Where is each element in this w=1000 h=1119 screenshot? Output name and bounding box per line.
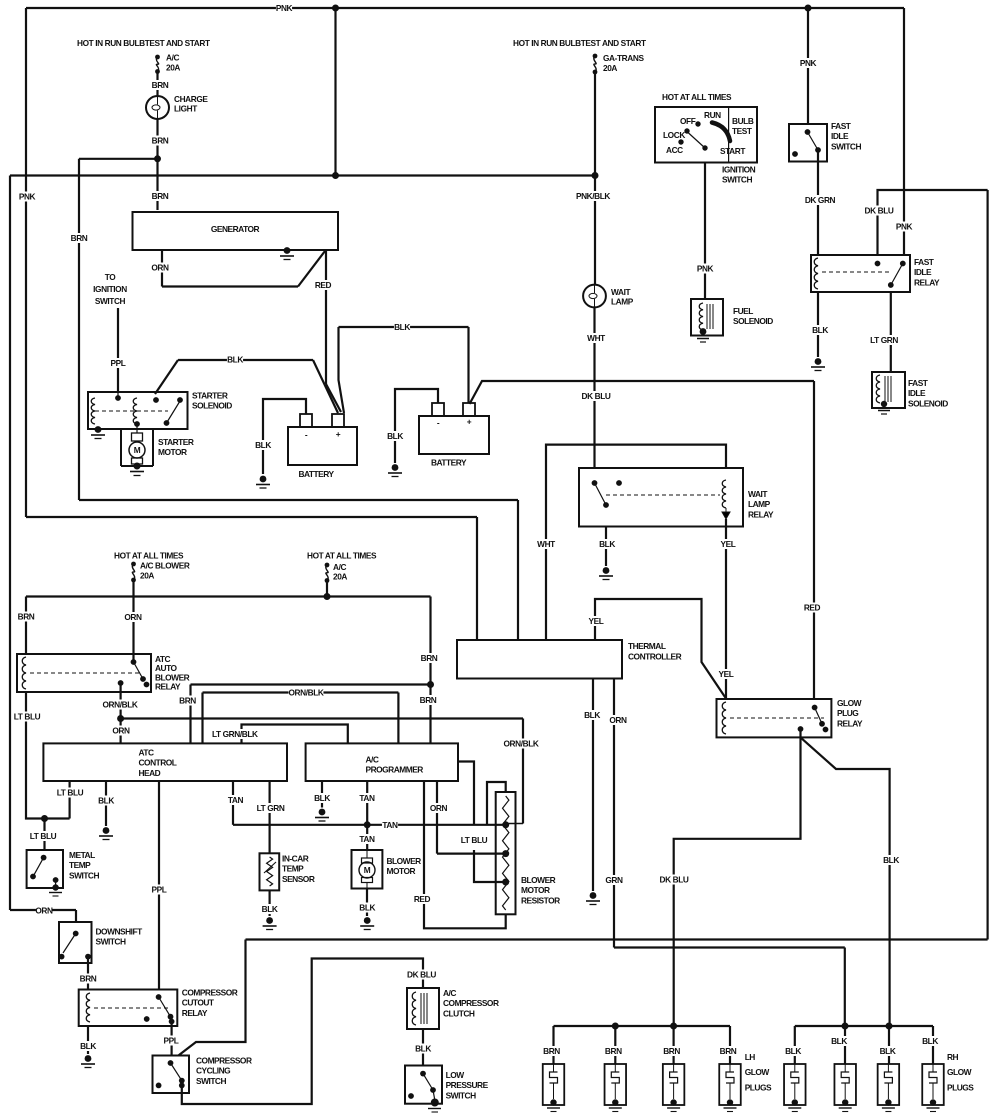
label ORN into control head bbox=[112, 726, 130, 736]
label BLK RH glow plug 4 bbox=[922, 1036, 938, 1046]
svg-text:WHT: WHT bbox=[587, 333, 605, 343]
label DK BLU compressor clutch bbox=[406, 970, 436, 980]
label YEL at glow plug relay bbox=[718, 669, 734, 679]
pin DK BLU contact fast idle relay bbox=[875, 261, 881, 267]
label ORN ATC relay feed bbox=[124, 612, 142, 622]
junction resistor tap 1 bbox=[502, 821, 509, 828]
label START bbox=[720, 146, 745, 156]
fuse A/C 20A lower bbox=[325, 563, 330, 583]
svg-text:BLK: BLK bbox=[359, 903, 375, 913]
pin ORN contact ATC relay bbox=[131, 659, 137, 665]
wire ORN/BLK down to blower resistor bbox=[522, 719, 524, 824]
svg-text:SWITCH: SWITCH bbox=[196, 1076, 226, 1086]
wire BLK to RH glow plug 2 bbox=[844, 1026, 846, 1064]
divider ignition switch bbox=[728, 107, 730, 163]
svg-text:SWITCH: SWITCH bbox=[722, 174, 752, 184]
svg-text:WHT: WHT bbox=[537, 539, 555, 549]
motor BLOWER MOTOR box bbox=[352, 850, 383, 889]
pin cycling switch spare bbox=[156, 1083, 162, 1089]
svg-text:20A: 20A bbox=[333, 572, 347, 582]
pin output contact glow plug relay bbox=[798, 726, 804, 732]
svg-text:ORN: ORN bbox=[430, 803, 448, 813]
wire LT BLU to metal temp switch bbox=[43, 819, 45, 851]
wire PNK/BLK fuse to wait lamp bbox=[594, 72, 596, 285]
label FAST IDLE SOLENOID bbox=[908, 378, 948, 408]
wire BLK wait lamp relay output ground bbox=[605, 527, 607, 567]
label RH GLOW PLUGS bbox=[947, 1052, 974, 1092]
wire BRN to LH glow plug bbox=[729, 1026, 731, 1064]
svg-text:BLK: BLK bbox=[98, 796, 114, 806]
switch COMPRESSOR CYCLING SWITCH box bbox=[153, 1056, 190, 1094]
wire RED programmer to resistor bottom bbox=[424, 781, 506, 928]
svg-text:RED: RED bbox=[804, 603, 821, 613]
wire BRN to LH glow plug bbox=[614, 1026, 616, 1064]
label RED generator output bbox=[315, 280, 332, 290]
label A/C COMPRESSOR CLUTCH bbox=[443, 988, 499, 1018]
pin low pressure switch arm end bbox=[430, 1087, 436, 1093]
svg-text:HOT AT ALL TIMES: HOT AT ALL TIMES bbox=[662, 92, 732, 102]
svg-text:BLK: BLK bbox=[80, 1041, 96, 1051]
wire YEL wait lamp relay to glow plug relay bbox=[725, 519, 727, 699]
wire PPL head to compressor cutout relay bbox=[158, 781, 160, 990]
coil fuel solenoid bbox=[699, 303, 703, 330]
wire TAN programmer to blower motor bbox=[366, 781, 368, 850]
label BRN control head bbox=[179, 696, 196, 706]
ground wait lamp relay output bbox=[599, 567, 613, 579]
label BLOWER MOTOR bbox=[387, 856, 422, 876]
svg-text:SWITCH: SWITCH bbox=[69, 870, 99, 880]
switch arm wait lamp relay bbox=[595, 483, 607, 505]
svg-text:SWITCH: SWITCH bbox=[831, 141, 861, 151]
pin arm contact glow plug relay bbox=[819, 721, 825, 727]
svg-text:RED: RED bbox=[315, 280, 332, 290]
label BLK RH glow plug 1 bbox=[785, 1046, 801, 1056]
svg-text:BRN: BRN bbox=[152, 80, 169, 90]
ground fast idle solenoid bbox=[878, 401, 890, 414]
svg-text:IDLE: IDLE bbox=[908, 388, 926, 398]
svg-text:PPL: PPL bbox=[164, 1036, 179, 1046]
wire BRN fuse to charge light bbox=[156, 72, 158, 97]
label TO IGNITION SWITCH bbox=[93, 272, 127, 306]
svg-text:BULB: BULB bbox=[732, 116, 754, 126]
label LT GRN bbox=[255, 803, 285, 813]
wire BRN left rail down bbox=[78, 159, 80, 500]
label DOWNSHIFT SWITCH bbox=[96, 927, 144, 947]
label BRN programmer feed upper bbox=[421, 653, 438, 663]
wire ORN left rail to downshift switch bbox=[10, 909, 76, 911]
wire GRN drop to RH glow plug bus bbox=[844, 948, 846, 1027]
svg-text:BRN: BRN bbox=[420, 695, 437, 705]
svg-text:ORN: ORN bbox=[35, 906, 53, 916]
ground in-car sensor bbox=[263, 917, 277, 929]
wire ORN fuse to ATC relay bbox=[132, 580, 134, 662]
pin cycling switch output bbox=[179, 1083, 185, 1089]
switch arm cutout relay bbox=[159, 997, 171, 1017]
pin PPL contact cutout relay bbox=[156, 994, 162, 1000]
svg-text:RESISTOR: RESISTOR bbox=[521, 895, 560, 905]
label fuse A/C BLOWER 20A bbox=[140, 561, 190, 581]
fuse A/C BLOWER 20A bbox=[131, 562, 136, 583]
relay WAIT LAMP RELAY box bbox=[579, 468, 743, 527]
label fuse A/C 20A bbox=[166, 53, 180, 73]
label BRN below charge light bbox=[152, 136, 169, 146]
wire TAN from head bbox=[232, 781, 234, 825]
label COMPRESSOR CUTOUT RELAY bbox=[182, 988, 238, 1018]
wire BLK to RH glow plug 4 bbox=[932, 1026, 934, 1064]
label OFF bbox=[680, 116, 696, 126]
element in-car temp sensor thermistor bbox=[267, 857, 273, 886]
wire LT BLU from head bbox=[68, 781, 70, 819]
wire BRN to AC programmer bbox=[429, 597, 431, 744]
label ATC CONTROL HEAD bbox=[139, 748, 177, 778]
label DK BLU LH glow plug feed bbox=[659, 875, 689, 885]
label LH GLOW PLUGS bbox=[745, 1052, 772, 1092]
svg-text:TO: TO bbox=[105, 272, 117, 282]
svg-text:GRN: GRN bbox=[605, 875, 623, 885]
sensor IN-CAR TEMP SENSOR box bbox=[260, 853, 280, 890]
wire ORN/GRN thermal controller to glow plugs bbox=[613, 679, 615, 948]
svg-text:BLK: BLK bbox=[255, 440, 271, 450]
svg-text:ORN: ORN bbox=[151, 263, 169, 273]
label ORN/BLK resistor feed bbox=[504, 739, 539, 749]
wire BLK to RH glow plug 3 bbox=[888, 1026, 890, 1064]
label ACC bbox=[666, 145, 683, 155]
wire fuse to y596 bus bbox=[326, 581, 328, 597]
svg-text:MOTOR: MOTOR bbox=[158, 447, 187, 457]
svg-text:GA-TRANS: GA-TRANS bbox=[603, 53, 644, 63]
svg-text:ATC: ATC bbox=[139, 748, 155, 758]
wire YEL thermal controller to glow plug relay bbox=[595, 599, 726, 699]
junction RH bus GRN feed bbox=[842, 1023, 849, 1030]
relay STARTER SOLENOID box bbox=[88, 392, 188, 429]
glow plug RH 2 bbox=[834, 1064, 856, 1105]
svg-text:PNK: PNK bbox=[697, 264, 714, 274]
indicator WAIT LAMP bbox=[583, 285, 606, 308]
pin OFF contact bbox=[695, 121, 700, 126]
wire BLK glow plug relay to RH glow plugs bbox=[801, 737, 890, 1026]
label FAST IDLE RELAY bbox=[914, 257, 940, 287]
svg-text:BLK: BLK bbox=[584, 710, 600, 720]
svg-text:LT BLU: LT BLU bbox=[461, 835, 488, 845]
label BRN programmer feed lower bbox=[420, 695, 437, 705]
ground blower motor bbox=[360, 917, 374, 929]
label WHT wait lamp bbox=[587, 333, 605, 343]
coil wait lamp relay bbox=[722, 480, 726, 508]
wire PNK into thermal controller bbox=[476, 517, 478, 640]
label ORN/BLK ATC relay output bbox=[103, 700, 138, 710]
coil starter solenoid pull-in bbox=[91, 398, 95, 424]
switch METAL TEMP SWITCH box bbox=[27, 850, 63, 888]
svg-text:RELAY: RELAY bbox=[155, 682, 181, 692]
svg-text:BRN: BRN bbox=[80, 974, 97, 984]
switch arm ignition bbox=[688, 133, 705, 149]
wire BLK diagonal into battery positive bbox=[313, 360, 338, 413]
pin switch contact lower bbox=[164, 420, 170, 426]
svg-text:COMPRESSOR: COMPRESSOR bbox=[443, 998, 499, 1008]
junction RH bus BLK feed bbox=[886, 1023, 893, 1030]
svg-text:HOT IN RUN BULBTEST AND START: HOT IN RUN BULBTEST AND START bbox=[77, 38, 210, 48]
svg-text:YEL: YEL bbox=[721, 539, 736, 549]
svg-text:COMPRESSOR: COMPRESSOR bbox=[182, 988, 238, 998]
label ORN/BLK head-programmer bbox=[289, 688, 324, 698]
wire low pressure switch to ground bbox=[433, 1090, 435, 1100]
svg-text:METAL: METAL bbox=[69, 850, 95, 860]
label ORN programmer output bbox=[430, 803, 448, 813]
svg-text:TEMP: TEMP bbox=[69, 860, 91, 870]
label BLK blower motor bbox=[359, 903, 375, 913]
svg-text:PNK/BLK: PNK/BLK bbox=[576, 191, 610, 201]
svg-text:BRN: BRN bbox=[720, 1046, 737, 1056]
glow plug LH 4 bbox=[719, 1064, 741, 1105]
svg-text:RH: RH bbox=[947, 1052, 959, 1062]
label CHARGE LIGHT bbox=[174, 94, 208, 114]
wire left rail x10 down to ORN bbox=[9, 176, 11, 911]
svg-text:STARTER: STARTER bbox=[192, 391, 228, 401]
label PPL cycling switch bbox=[163, 1036, 179, 1046]
battery BATTERY 2 bbox=[419, 416, 489, 454]
wire RED down to glow plug relay bbox=[813, 381, 815, 699]
ground fuel solenoid bbox=[697, 328, 709, 342]
wire LT GRN relay to fast idle solenoid bbox=[890, 292, 892, 372]
label PNK right bbox=[896, 222, 913, 232]
label BRN LH glow plug bbox=[543, 1046, 560, 1056]
coil fast idle relay bbox=[814, 258, 818, 289]
pin output contact wait lamp relay bbox=[603, 502, 609, 508]
switch arm starter solenoid bbox=[167, 401, 181, 423]
svg-text:LT GRN: LT GRN bbox=[257, 803, 285, 813]
svg-text:BLK: BLK bbox=[227, 355, 243, 365]
glow plug RH 4 bbox=[922, 1064, 944, 1105]
svg-text:BLK: BLK bbox=[314, 793, 330, 803]
svg-text:SWITCH: SWITCH bbox=[95, 296, 126, 306]
svg-text:IDLE: IDLE bbox=[831, 131, 849, 141]
wire BRN to LH glow plug bbox=[672, 1026, 674, 1064]
element blower motor resistor bbox=[503, 796, 509, 910]
svg-text:SWITCH: SWITCH bbox=[446, 1090, 476, 1100]
label BRN left rail bbox=[71, 233, 88, 243]
wire LT BLU lower segment to resistor tap bbox=[474, 850, 506, 882]
svg-text:LT BLU: LT BLU bbox=[30, 831, 57, 841]
svg-text:SOLENOID: SOLENOID bbox=[733, 316, 773, 326]
svg-text:BRN: BRN bbox=[543, 1046, 560, 1056]
label BRN LH glow plug bbox=[720, 1046, 737, 1056]
junction starter motor ground bbox=[134, 463, 141, 470]
wire ORN programmer down bbox=[436, 781, 438, 854]
coil glow plug relay bbox=[722, 702, 726, 734]
label BATTERY 1 bbox=[298, 469, 334, 479]
svg-text:WAIT: WAIT bbox=[748, 489, 768, 499]
switch arm fast idle relay bbox=[891, 264, 903, 286]
label BLK starter wire bbox=[227, 355, 243, 365]
switch arm low pressure switch bbox=[423, 1074, 433, 1090]
svg-text:PLUG: PLUG bbox=[837, 708, 858, 718]
pin RED contact glow plug relay bbox=[812, 705, 818, 711]
svg-text:PLUGS: PLUGS bbox=[745, 1082, 772, 1092]
coil compressor cutout relay bbox=[86, 993, 90, 1022]
pin lower contact ATC relay bbox=[144, 682, 150, 688]
svg-text:RUN: RUN bbox=[704, 110, 721, 120]
wire BRN fuse bus y596 bbox=[26, 595, 431, 597]
ground battery2 negative bbox=[388, 464, 402, 476]
relay ATC AUTO BLOWER RELAY box bbox=[17, 654, 151, 692]
svg-text:IN-CAR: IN-CAR bbox=[282, 854, 309, 864]
ground battery1 negative bbox=[256, 476, 270, 488]
svg-text:STARTER: STARTER bbox=[158, 437, 194, 447]
svg-text:HOT AT ALL TIMES: HOT AT ALL TIMES bbox=[307, 551, 377, 561]
svg-text:BRN: BRN bbox=[152, 136, 169, 146]
label FAST IDLE SWITCH bbox=[831, 121, 861, 151]
svg-text:IGNITION: IGNITION bbox=[93, 284, 127, 294]
label DK BLU fast idle relay bbox=[864, 206, 894, 216]
junction top bus / generator drop bbox=[332, 5, 339, 12]
relay GLOW PLUG RELAY box bbox=[717, 699, 832, 737]
wire WHT thermal controller to wait lamp relay coil bbox=[546, 445, 726, 640]
label YEL thermal controller bbox=[588, 616, 604, 626]
label HOT AT ALL TIMES ignition bbox=[662, 92, 732, 102]
generator GENERATOR box bbox=[133, 212, 339, 250]
ground metal temp switch bbox=[49, 884, 62, 896]
dashed link ATC relay bbox=[30, 672, 140, 674]
svg-text:M: M bbox=[134, 445, 141, 455]
label BRN cutout relay bbox=[80, 974, 97, 984]
label LOCK bbox=[663, 130, 685, 140]
label LT BLU left bbox=[13, 712, 41, 722]
label PNK left bbox=[19, 192, 36, 202]
wire BLK link into battery2 positive bbox=[467, 327, 469, 403]
module ATC CONTROL HEAD box bbox=[43, 743, 287, 781]
label BLK battery link bbox=[394, 322, 410, 332]
svg-text:BRN: BRN bbox=[71, 233, 88, 243]
svg-text:BRN: BRN bbox=[605, 1046, 622, 1056]
pin arm contact ATC relay bbox=[140, 676, 146, 682]
label BLK battery1 negative bbox=[255, 440, 271, 450]
pin arm contact cutout relay bbox=[168, 1014, 174, 1020]
wire BLK battery1 negative bbox=[263, 399, 306, 474]
svg-text:HOT IN RUN BULBTEST AND START: HOT IN RUN BULBTEST AND START bbox=[513, 38, 646, 48]
label ORN downshift bbox=[35, 906, 53, 916]
wire diagonal ORN to generator output stud bbox=[298, 251, 325, 287]
wire BLK battery link bbox=[339, 326, 469, 328]
svg-text:TAN: TAN bbox=[359, 834, 375, 844]
svg-text:LH: LH bbox=[745, 1052, 756, 1062]
pin fast idle switch lower bbox=[815, 147, 821, 153]
arc ignition key sweep bbox=[712, 123, 730, 142]
wire ORN/BLK over to blower resistor bbox=[121, 717, 523, 719]
label BULB TEST bbox=[732, 116, 754, 136]
switch IGNITION SWITCH box bbox=[655, 107, 757, 163]
label DK BLU wait lamp relay feed bbox=[581, 391, 611, 401]
wire RED battery2 positive feed bbox=[470, 381, 815, 404]
dashed link cutout relay bbox=[94, 1007, 170, 1009]
label STARTER MOTOR bbox=[158, 437, 194, 457]
pin downshift switch output bbox=[85, 954, 91, 960]
pin cycling switch top bbox=[168, 1060, 174, 1066]
label GLOW PLUG RELAY bbox=[837, 698, 863, 728]
pin output contact fast idle relay bbox=[888, 282, 894, 288]
svg-text:BATTERY: BATTERY bbox=[431, 458, 467, 468]
label PNK top bus bbox=[276, 3, 293, 13]
motor STARTER MOTOR symbol bbox=[132, 433, 143, 441]
svg-text:20A: 20A bbox=[166, 63, 180, 73]
svg-text:DK BLU: DK BLU bbox=[407, 970, 436, 980]
label WHT relay coil wire bbox=[537, 539, 555, 549]
label PNK/BLK bbox=[576, 191, 611, 201]
wire ORN from generator bbox=[161, 250, 163, 287]
glow plug RH 1 bbox=[784, 1064, 806, 1105]
pin fast idle switch top bbox=[805, 129, 811, 135]
label TAN blower motor bbox=[359, 834, 375, 844]
coil ATC auto blower relay bbox=[22, 657, 26, 689]
pin LOCK contact bbox=[684, 128, 689, 133]
ground fast idle relay coil bbox=[811, 358, 825, 370]
wire DK BLU fast idle relay to right rail bbox=[878, 190, 988, 255]
svg-text:BLK: BLK bbox=[883, 855, 899, 865]
label BLK cutout relay bbox=[80, 1041, 96, 1051]
wire BLK cutout relay coil ground bbox=[87, 1026, 89, 1054]
wire ORN/BLK head to programmer bbox=[203, 691, 399, 693]
junction fuse / y596 bus bbox=[324, 593, 331, 600]
label BLK battery2 negative bbox=[387, 431, 403, 441]
pin BLK contact starter solenoid bbox=[153, 397, 159, 403]
svg-text:TEST: TEST bbox=[732, 126, 752, 136]
junction LH bus plug 2 bbox=[612, 1023, 619, 1030]
junction LT BLU / metal temp switch bbox=[41, 815, 48, 822]
svg-text:FAST: FAST bbox=[908, 378, 929, 388]
battery BATTERY 1 bbox=[288, 427, 357, 465]
label LT BLU head output bbox=[55, 788, 85, 798]
pin ACC contact bbox=[678, 139, 683, 144]
wire WHT/DK BLU wait lamp to relay bbox=[593, 308, 595, 469]
svg-text:ORN/BLK: ORN/BLK bbox=[103, 700, 138, 710]
pin fast idle switch NC bbox=[792, 151, 798, 157]
pin metal temp switch top bbox=[41, 855, 47, 861]
solenoid FUEL SOLENOID box bbox=[691, 299, 723, 336]
fuse A/C 20A bbox=[155, 55, 160, 74]
wire BRN into control head bbox=[189, 685, 191, 744]
svg-text:FUEL: FUEL bbox=[733, 306, 753, 316]
wire PNK left drop to thermal controller bbox=[25, 8, 27, 517]
svg-text:BLOWER: BLOWER bbox=[387, 856, 422, 866]
wire LT GRN/BLK head to programmer bbox=[242, 725, 348, 744]
label DK GRN bbox=[805, 195, 836, 205]
svg-text:BATTERY: BATTERY bbox=[298, 469, 334, 479]
svg-text:PLUGS: PLUGS bbox=[947, 1082, 974, 1092]
label HOT AT ALL TIMES blower bbox=[114, 551, 184, 561]
wire PNK over to thermal controller bbox=[26, 516, 477, 518]
wire LT GRN head to in-car sensor bbox=[269, 781, 271, 853]
label BRN ATC relay coil bbox=[18, 612, 35, 622]
wire TAN bracket to resistor top bbox=[487, 782, 506, 825]
svg-text:PRESSURE: PRESSURE bbox=[446, 1080, 489, 1090]
label HOT AT ALL TIMES ac bbox=[307, 551, 377, 561]
svg-text:PNK: PNK bbox=[800, 58, 817, 68]
solenoid A/C COMPRESSOR CLUTCH box bbox=[407, 988, 439, 1029]
label RUN bbox=[704, 110, 721, 120]
svg-text:COMPRESSOR: COMPRESSOR bbox=[196, 1056, 252, 1066]
svg-text:BLK: BLK bbox=[785, 1046, 801, 1056]
wire BLK blower motor ground bbox=[366, 889, 368, 917]
svg-text:HEAD: HEAD bbox=[139, 768, 161, 778]
pin downshift switch top bbox=[73, 931, 79, 937]
wire BLK thermal controller ground bbox=[592, 679, 594, 892]
svg-text:A/C: A/C bbox=[333, 562, 346, 572]
junction resistor tap 3 bbox=[502, 879, 509, 886]
wire ORN to resistor tap bbox=[437, 852, 506, 854]
wire bus y175 bbox=[10, 174, 595, 176]
core fuel solenoid bbox=[707, 304, 713, 329]
label BLK fast idle relay bbox=[812, 325, 828, 335]
wire BRN over to thermal controller bbox=[79, 499, 518, 501]
